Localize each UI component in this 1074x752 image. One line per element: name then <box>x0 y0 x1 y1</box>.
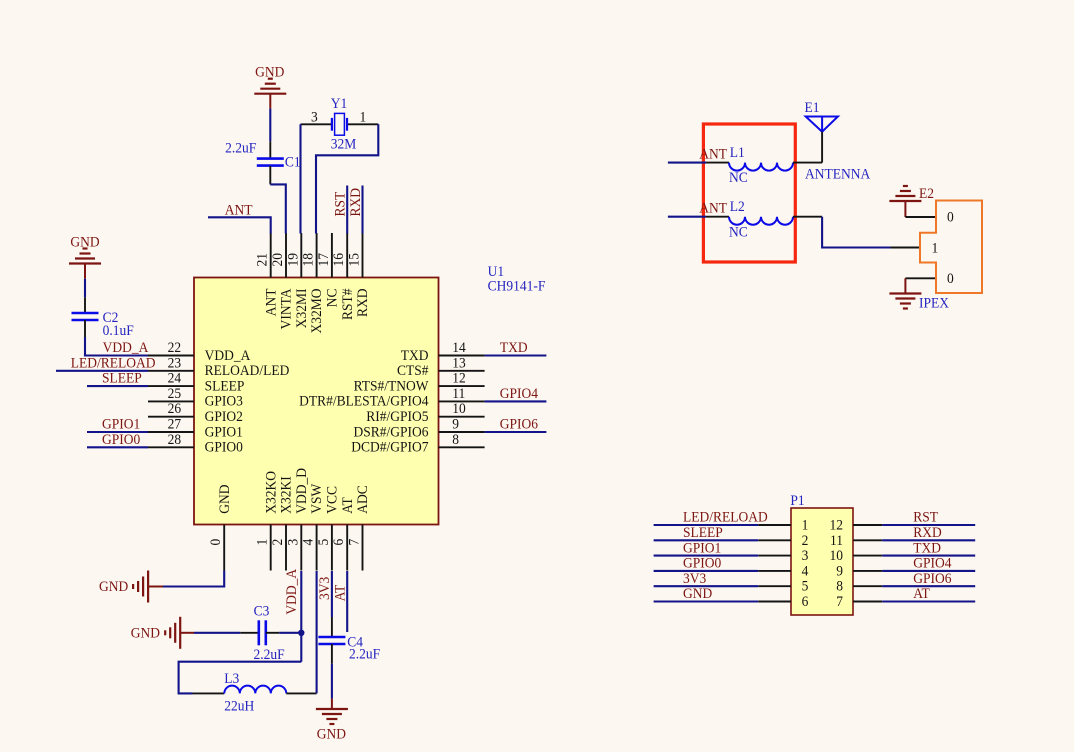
IPEX pin 1 lead <box>891 247 921 249</box>
inductor L2 left lead <box>706 216 729 218</box>
svg-text:GND: GND <box>70 234 99 251</box>
svg-text:GND: GND <box>255 64 284 81</box>
svg-text:CTS#: CTS# <box>397 363 429 380</box>
svg-text:GPIO0: GPIO0 <box>683 555 721 572</box>
wire U1 pin 3 down through junction <box>300 571 302 662</box>
wire Y1 pin 1 to U1 pin 18 <box>316 124 378 233</box>
svg-text:ADC: ADC <box>355 485 372 514</box>
svg-text:LED/RELOAD: LED/RELOAD <box>683 509 768 526</box>
svg-text:CH9141-F: CH9141-F <box>488 278 546 295</box>
svg-text:27: 27 <box>168 416 181 433</box>
svg-text:1: 1 <box>254 539 271 546</box>
ground E2 <box>889 186 921 201</box>
P1 pin 3 lead <box>758 555 791 557</box>
wire GND1 stem red segment <box>269 94 271 109</box>
svg-text:GPIO1: GPIO1 <box>683 540 721 557</box>
svg-text:21: 21 <box>254 253 271 266</box>
connector P1 body <box>791 508 853 615</box>
svg-text:VDD_A: VDD_A <box>205 347 251 364</box>
svg-text:2: 2 <box>802 532 809 549</box>
svg-text:DSR#/GPIO6: DSR#/GPIO6 <box>353 424 428 441</box>
ground GND left of C2 <box>69 249 101 264</box>
wire RST to pin 16 <box>346 186 348 234</box>
svg-text:NC: NC <box>729 170 748 187</box>
svg-text:GND: GND <box>131 625 160 642</box>
wire GND4 stem red segment <box>180 632 194 634</box>
svg-text:6: 6 <box>802 593 809 610</box>
svg-text:22: 22 <box>168 339 181 356</box>
wire LED/RELOAD to P1 pin 1 <box>654 524 759 526</box>
svg-text:3: 3 <box>311 109 318 126</box>
svg-text:C1: C1 <box>285 154 301 171</box>
svg-text:3V3: 3V3 <box>683 570 706 587</box>
inductor L1 right lead <box>793 162 822 164</box>
svg-text:15: 15 <box>346 253 363 266</box>
wire GPIO1 to P1 pin 3 <box>654 555 759 557</box>
svg-text:IPEX: IPEX <box>919 295 949 312</box>
svg-text:VDD_A: VDD_A <box>283 568 300 614</box>
inductor L2 <box>729 217 793 225</box>
wire P1 pin 9 to GPIO4 <box>882 570 975 572</box>
svg-text:19: 19 <box>285 253 302 266</box>
wire TXD <box>485 354 547 356</box>
U1 pin 5 stub <box>331 525 333 571</box>
svg-text:GPIO1: GPIO1 <box>102 416 140 433</box>
P1 pin 4 lead <box>758 570 791 572</box>
P1 pin 2 lead <box>758 539 791 541</box>
inductor L2 right lead <box>793 216 822 218</box>
svg-text:18: 18 <box>300 253 317 266</box>
U1 pin 10 stub <box>439 416 485 418</box>
svg-text:GPIO6: GPIO6 <box>913 570 951 587</box>
svg-text:RTS#/TNOW: RTS#/TNOW <box>354 378 429 395</box>
svg-text:2: 2 <box>269 539 286 546</box>
U1 pin 7 stub <box>362 525 364 571</box>
svg-text:VDD_A: VDD_A <box>103 339 149 356</box>
svg-text:DCD#/GPIO7: DCD#/GPIO7 <box>351 439 428 456</box>
ground GND top of C1 <box>254 79 286 94</box>
svg-text:X32KI: X32KI <box>278 476 295 514</box>
svg-text:GPIO2: GPIO2 <box>205 408 243 425</box>
capacitor C3 <box>259 620 266 645</box>
svg-text:16: 16 <box>331 253 348 266</box>
svg-text:ANT: ANT <box>699 200 727 217</box>
svg-text:22uH: 22uH <box>224 698 254 715</box>
svg-text:LED/RELOAD: LED/RELOAD <box>71 355 156 372</box>
ground GND at U1 pin 0 <box>133 571 148 603</box>
capacitor C3 right lead <box>266 632 279 634</box>
wire junction to L3 left <box>179 662 302 694</box>
svg-text:5: 5 <box>315 539 332 546</box>
U1 pin 4 stub <box>316 525 318 571</box>
svg-text:SLEEP: SLEEP <box>205 378 245 395</box>
svg-text:0: 0 <box>947 270 954 287</box>
U1 pin 9 stub <box>439 431 485 433</box>
svg-text:GPIO0: GPIO0 <box>205 439 243 456</box>
svg-text:VCC: VCC <box>324 486 341 514</box>
svg-text:14: 14 <box>452 339 465 356</box>
svg-text:3V3: 3V3 <box>317 577 334 600</box>
P1 pin 1 lead <box>758 524 791 526</box>
wire IPEX GND stem red segment <box>904 278 906 293</box>
P1 pin 6 lead <box>758 601 791 603</box>
wire P1 pin 7 to AT <box>882 600 975 602</box>
wire P1 pin 12 to RST <box>882 524 975 526</box>
svg-text:10: 10 <box>452 401 465 418</box>
U1 pin 16 stub <box>346 233 348 278</box>
U1 pin 19 stub <box>300 233 302 278</box>
svg-text:28: 28 <box>168 431 181 448</box>
svg-text:3: 3 <box>802 548 809 565</box>
svg-text:C3: C3 <box>254 603 270 620</box>
wire GPIO1 <box>87 431 148 433</box>
U1 pin 12 stub <box>439 385 485 387</box>
svg-text:Y1: Y1 <box>331 95 347 112</box>
capacitor C1 <box>257 159 284 166</box>
wire RXD to pin 15 <box>361 186 363 234</box>
wire GND3 to pin 0 <box>163 571 224 587</box>
IPEX connector pin 0 top lead <box>905 216 936 218</box>
svg-text:RELOAD/LED: RELOAD/LED <box>205 363 290 380</box>
P1 pin 8 lead <box>853 585 882 587</box>
svg-text:AT: AT <box>332 584 349 601</box>
svg-text:2.2uF: 2.2uF <box>349 646 380 663</box>
svg-text:X32KO: X32KO <box>263 471 280 514</box>
svg-text:TXD: TXD <box>500 339 528 356</box>
wire Y1 pin 3 to U1 pin 19 <box>299 124 301 233</box>
wire C4 to GND <box>331 664 333 699</box>
U1 pin 11 stub <box>439 400 485 402</box>
U1 pin 24 stub <box>148 385 194 387</box>
svg-text:GND: GND <box>216 484 233 513</box>
wire SLEEP <box>87 385 148 387</box>
svg-text:GND: GND <box>683 586 712 603</box>
capacitor C1 bottom lead <box>269 166 271 184</box>
U1 pin 23 stub <box>148 370 194 372</box>
svg-text:RXD: RXD <box>913 524 942 541</box>
svg-text:ANTENNA: ANTENNA <box>805 166 871 183</box>
red highlight box around L1 L2 <box>703 124 795 262</box>
capacitor C2 bottom lead <box>84 320 86 337</box>
wire C2 to pin 22 row <box>85 337 148 356</box>
svg-text:9: 9 <box>836 563 843 580</box>
svg-text:P1: P1 <box>790 493 804 510</box>
wire E2 stem red segment <box>904 201 906 217</box>
capacitor C1 top lead <box>269 141 271 158</box>
svg-text:GPIO1: GPIO1 <box>205 424 243 441</box>
wire GPIO0 to P1 pin 4 <box>654 570 759 572</box>
svg-text:8: 8 <box>452 431 459 448</box>
svg-text:VDD_D: VDD_D <box>293 468 310 514</box>
svg-text:0: 0 <box>208 539 225 546</box>
IPEX connector body <box>920 201 982 294</box>
U1 pin 22 stub <box>148 355 194 357</box>
P1 pin 9 lead <box>853 570 882 572</box>
svg-text:25: 25 <box>168 385 181 402</box>
wire GND2 to C2 <box>84 279 86 298</box>
P1 pin 10 lead <box>853 555 882 557</box>
U1 pin 14 stub <box>439 355 485 357</box>
ground GND at C3 <box>165 617 180 649</box>
junction at VDD_A node <box>298 630 304 636</box>
svg-text:E2: E2 <box>919 185 934 202</box>
capacitor C4 <box>318 637 345 644</box>
P1 pin 12 lead <box>853 524 882 526</box>
svg-text:7: 7 <box>346 539 363 546</box>
svg-text:1: 1 <box>802 517 809 534</box>
inductor L1 left lead <box>706 162 729 164</box>
U1 pin 2 stub <box>285 525 287 571</box>
wire GND5 stem red segment <box>331 699 333 709</box>
svg-text:TXD: TXD <box>401 347 429 364</box>
svg-text:AT: AT <box>339 497 356 514</box>
wire GPIO0 <box>87 446 148 448</box>
U1 pin 3 stub <box>300 525 302 571</box>
svg-text:X32MO: X32MO <box>309 289 326 334</box>
U1 pin 0 stub <box>223 525 225 571</box>
svg-text:12: 12 <box>452 370 465 387</box>
svg-text:AT: AT <box>913 586 930 603</box>
svg-text:L3: L3 <box>224 670 239 687</box>
svg-text:NC: NC <box>324 289 341 308</box>
svg-text:RST#: RST# <box>339 289 356 321</box>
wire GPIO6 <box>485 431 547 433</box>
svg-text:32M: 32M <box>331 136 357 153</box>
capacitor C4 top lead <box>331 617 333 637</box>
antenna E1 lead to L1 <box>821 132 823 163</box>
wire ANT to pin 21 <box>208 217 271 233</box>
svg-text:GND: GND <box>317 726 346 743</box>
svg-text:GPIO4: GPIO4 <box>913 555 951 572</box>
svg-text:L2: L2 <box>730 198 745 215</box>
svg-text:23: 23 <box>168 355 181 372</box>
svg-text:RST: RST <box>913 509 938 526</box>
svg-text:1: 1 <box>932 240 939 257</box>
wire P1 pin 11 to RXD <box>882 539 975 541</box>
U1 pin 17 stub <box>331 233 333 278</box>
svg-text:RI#/GPIO5: RI#/GPIO5 <box>366 408 428 425</box>
svg-text:RXD: RXD <box>355 289 372 318</box>
svg-text:24: 24 <box>168 370 181 387</box>
svg-text:ANT: ANT <box>263 288 280 316</box>
antenna E1 symbol <box>806 117 838 132</box>
svg-text:8: 8 <box>836 578 843 595</box>
svg-text:NC: NC <box>729 224 748 241</box>
wire ANT to L2 <box>668 216 706 218</box>
crystal Y1 symbol <box>332 113 347 135</box>
svg-text:GND: GND <box>99 578 128 595</box>
U1 pin 1 stub <box>270 525 272 571</box>
wire 3V3 to P1 pin 5 <box>654 585 759 587</box>
capacitor C4 bottom lead <box>331 644 333 664</box>
svg-text:7: 7 <box>836 593 843 610</box>
ground GND below IPEX <box>889 294 921 309</box>
svg-text:20: 20 <box>269 253 286 266</box>
wire U1 pin 5 down to C4 <box>331 571 333 617</box>
svg-text:SLEEP: SLEEP <box>683 524 723 541</box>
svg-text:17: 17 <box>315 253 332 266</box>
U1 pin 26 stub <box>148 416 194 418</box>
wire C1 to pin 20 <box>270 184 286 233</box>
svg-text:L1: L1 <box>730 144 745 161</box>
U1 pin 13 stub <box>439 370 485 372</box>
svg-text:DTR#/BLESTA/GPIO4: DTR#/BLESTA/GPIO4 <box>299 393 428 410</box>
svg-text:0.1uF: 0.1uF <box>103 322 134 339</box>
wire L3 to U1 pin 4 <box>316 571 318 693</box>
P1 pin 11 lead <box>853 539 882 541</box>
svg-text:2.2uF: 2.2uF <box>225 140 256 157</box>
crystal Y1 right lead <box>347 123 378 125</box>
svg-text:9: 9 <box>452 416 459 433</box>
wire SLEEP to P1 pin 2 <box>654 539 759 541</box>
U1 pin 25 stub <box>148 400 194 402</box>
svg-text:12: 12 <box>830 517 843 534</box>
ground GND below C4 <box>316 709 348 724</box>
wire GND4 to C3 <box>194 632 240 634</box>
svg-text:11: 11 <box>452 385 465 402</box>
svg-text:TXD: TXD <box>913 540 941 557</box>
wire GND2 stem red segment <box>84 264 86 279</box>
U1 pin 20 stub <box>285 233 287 278</box>
svg-text:3: 3 <box>285 539 302 546</box>
svg-text:GPIO0: GPIO0 <box>102 431 140 448</box>
svg-text:10: 10 <box>830 548 843 565</box>
wire C3 to junction <box>279 632 301 634</box>
capacitor C3 left lead <box>240 632 258 634</box>
wire GPIO4 <box>485 400 547 402</box>
P1 pin 5 lead <box>758 585 791 587</box>
P1 pin 7 lead <box>853 601 882 603</box>
U1 pin 8 stub <box>439 446 485 448</box>
wire GND to P1 pin 6 <box>654 600 759 602</box>
wire P1 pin 8 to GPIO6 <box>882 585 975 587</box>
svg-text:VSW: VSW <box>309 483 326 514</box>
wire ANT to L1 <box>668 162 706 164</box>
wire LED/RELOAD <box>56 370 148 372</box>
svg-text:26: 26 <box>168 401 181 418</box>
svg-text:X32MI: X32MI <box>293 288 310 328</box>
IC U1 CH9141-F body <box>194 278 439 525</box>
U1 pin 6 stub <box>346 525 348 571</box>
svg-text:6: 6 <box>331 539 348 546</box>
svg-text:GPIO3: GPIO3 <box>205 393 243 410</box>
U1 pin 15 stub <box>362 233 364 278</box>
svg-text:4: 4 <box>300 539 317 546</box>
wire U1 pin 6 AT stub <box>346 571 348 632</box>
inductor L3 left lead <box>193 692 225 694</box>
svg-text:0: 0 <box>947 209 954 226</box>
inductor L3 right lead <box>286 692 316 694</box>
U1 pin 21 stub <box>270 233 272 278</box>
svg-text:SLEEP: SLEEP <box>102 370 142 387</box>
svg-text:2.2uF: 2.2uF <box>254 646 285 663</box>
capacitor C2 <box>72 313 99 320</box>
U1 pin 27 stub <box>148 431 194 433</box>
svg-text:GPIO4: GPIO4 <box>500 385 538 402</box>
wire L2 to IPEX pin 1 <box>822 217 890 248</box>
crystal Y1 left lead <box>301 123 332 125</box>
inductor L3 <box>224 686 286 694</box>
wire GND1 to C1 <box>269 109 271 142</box>
svg-text:ANT: ANT <box>225 202 253 219</box>
svg-text:VINTA: VINTA <box>278 288 295 330</box>
capacitor C2 top lead <box>84 297 86 313</box>
svg-text:E1: E1 <box>805 99 820 116</box>
svg-text:11: 11 <box>830 532 843 549</box>
svg-text:13: 13 <box>452 355 465 372</box>
U1 pin 18 stub <box>316 233 318 278</box>
U1 pin 28 stub <box>148 446 194 448</box>
wire GND3 stem red segment <box>148 586 163 588</box>
svg-text:ANT: ANT <box>699 146 727 163</box>
IPEX pin 0 bottom lead <box>905 277 936 279</box>
svg-text:5: 5 <box>802 578 809 595</box>
svg-text:GPIO6: GPIO6 <box>500 416 538 433</box>
inductor L1 <box>729 163 793 171</box>
svg-text:4: 4 <box>802 563 809 580</box>
svg-text:1: 1 <box>360 109 367 126</box>
wire P1 pin 10 to TXD <box>882 555 975 557</box>
